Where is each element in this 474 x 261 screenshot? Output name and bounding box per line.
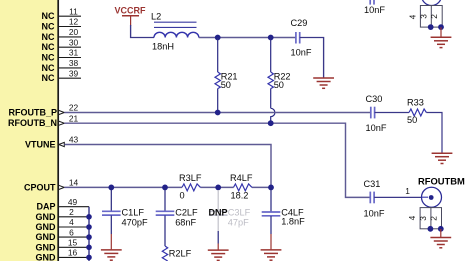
power VCCRF (115, 5, 147, 26)
svg-text:DNP: DNP (209, 207, 228, 217)
svg-text:VTUNE: VTUNE (25, 140, 56, 150)
svg-text:22: 22 (69, 103, 79, 113)
svg-text:14: 14 (69, 178, 79, 188)
ground at C3LF (208, 244, 229, 261)
capacitor C4LF (262, 187, 305, 234)
svg-text:38: 38 (69, 58, 79, 68)
svg-text:6: 6 (69, 227, 74, 237)
svg-text:R33: R33 (407, 98, 424, 108)
svg-text:R2LF: R2LF (169, 249, 192, 259)
svg-text:R4LF: R4LF (230, 173, 253, 183)
svg-text:10nF: 10nF (366, 123, 387, 133)
svg-text:0: 0 (180, 190, 185, 200)
svg-text:12: 12 (69, 17, 79, 27)
resistor R22 (268, 38, 291, 109)
pin GND 16 (36, 248, 90, 261)
resistor R33 (407, 98, 426, 125)
svg-text:C3LF: C3LF (228, 207, 251, 217)
junction on GND bus pin 6 (86, 234, 92, 240)
capacitor C3LF (DNP) (209, 190, 251, 244)
GND bus wire (88, 207, 90, 261)
junction R21 bottom on RFOUTB_P (215, 110, 221, 116)
svg-text:C31: C31 (364, 179, 381, 189)
pin RFOUTB_N 21 (8, 113, 78, 128)
svg-text:20: 20 (69, 27, 79, 37)
svg-text:11: 11 (69, 6, 78, 16)
resistor R2LF (162, 246, 191, 261)
svg-text:L2: L2 (151, 12, 161, 22)
svg-text:NC: NC (42, 22, 55, 32)
ground at J2 (430, 238, 451, 248)
svg-text:NC: NC (42, 53, 55, 63)
wire C31 to connector pin 1 (374, 186, 422, 198)
junction node at R22 top (268, 35, 274, 41)
junction node at R21 top (215, 35, 221, 41)
junction connector J1 pin 2 (438, 24, 444, 30)
wire C29 to ground (300, 38, 324, 78)
svg-text:50: 50 (221, 80, 231, 90)
ground at C1LF (101, 234, 122, 260)
pin DAP 49 (36, 197, 89, 212)
connector RFOUTBP J1 (partial at top) (407, 0, 442, 27)
svg-text:NC: NC (42, 11, 55, 21)
svg-text:4: 4 (407, 215, 417, 220)
ground at C4LF (261, 234, 282, 260)
svg-text:18nH: 18nH (152, 41, 174, 51)
svg-text:R3LF: R3LF (179, 173, 202, 183)
svg-text:68nF: 68nF (175, 218, 196, 228)
pin GND 6 (36, 227, 90, 242)
svg-text:50: 50 (407, 115, 417, 125)
svg-text:GND: GND (36, 212, 57, 222)
svg-text:3: 3 (418, 14, 428, 19)
ground at J1 (431, 37, 452, 47)
IC block U1 body (0, 0, 58, 261)
junction on GND bus pin 16 (86, 255, 92, 261)
pin VTUNE 43 (25, 135, 79, 150)
svg-text:VCCRF: VCCRF (115, 5, 147, 15)
ground at R33 (432, 153, 453, 163)
svg-text:43: 43 (69, 135, 79, 145)
svg-text:C1LF: C1LF (122, 207, 145, 217)
wire RFOUTB_P net (64, 112, 370, 114)
svg-text:GND: GND (36, 222, 57, 232)
wire RFOUTB_N net (64, 123, 370, 197)
svg-text:47pF: 47pF (228, 218, 249, 228)
pin GND 4 (36, 217, 90, 232)
junction connector J2 pin 2 (438, 226, 444, 232)
wire hop R22 over RFOUTB_P (271, 108, 275, 123)
wire CPOUT net (64, 186, 271, 188)
svg-text:GND: GND (36, 242, 57, 252)
svg-text:21: 21 (69, 113, 79, 123)
resistor R3LF (179, 173, 202, 200)
wire C30 to R33 (375, 112, 409, 114)
pin NC 38 (42, 58, 82, 73)
pin GND 15 (36, 238, 90, 253)
capacitor C30 (366, 94, 387, 133)
junction C3LF top (215, 185, 221, 191)
pin NC 31 (42, 48, 82, 63)
svg-text:4: 4 (69, 217, 74, 227)
svg-text:18.2: 18.2 (231, 190, 249, 200)
pin GND 2 (36, 207, 90, 222)
svg-text:10nF: 10nF (364, 5, 385, 15)
svg-text:1.8nF: 1.8nF (281, 217, 305, 227)
capacitor C31 (364, 179, 385, 219)
junction on GND bus pin 2 (86, 214, 92, 220)
svg-text:DAP: DAP (36, 202, 55, 212)
pin CPOUT 14 (24, 178, 78, 193)
svg-text:16: 16 (68, 248, 78, 258)
pin NC 12 (42, 17, 82, 32)
capacitor C29 (291, 18, 312, 58)
svg-text:GND: GND (36, 252, 57, 261)
svg-text:49: 49 (68, 197, 78, 207)
svg-text:RFOUTB_N: RFOUTB_N (8, 118, 57, 128)
capacitor C28 (partial at top) (364, 0, 385, 15)
svg-text:2: 2 (428, 216, 438, 221)
pin NC 39 (42, 68, 82, 83)
junction C1LF top (108, 185, 114, 191)
svg-text:2: 2 (429, 14, 439, 19)
ground at C29 (313, 78, 334, 88)
wire J2 to ground (440, 229, 442, 237)
wire R33 to ground (426, 113, 442, 153)
junction C2LF top (162, 185, 168, 191)
svg-text:31: 31 (69, 48, 79, 58)
svg-text:3: 3 (418, 216, 428, 221)
pin NC 30 (42, 37, 82, 52)
wire J1 to ground (440, 27, 442, 37)
pin NC 20 (42, 27, 82, 42)
svg-text:C2LF: C2LF (175, 207, 198, 217)
junction connector J1 pin 3 (428, 24, 434, 30)
svg-text:NC: NC (42, 42, 55, 52)
inductor L2 (151, 12, 199, 52)
capacitor C2LF (156, 187, 198, 246)
svg-text:NC: NC (42, 73, 55, 83)
svg-text:10nF: 10nF (364, 209, 385, 219)
svg-text:RFOUTB_P: RFOUTB_P (8, 108, 57, 118)
resistor R21 (215, 38, 238, 113)
pin NC 11 (42, 6, 82, 21)
svg-text:C29: C29 (291, 18, 308, 28)
svg-text:1: 1 (405, 186, 410, 196)
svg-text:4: 4 (407, 14, 417, 19)
junction R22 bottom on RFOUTB_N (268, 120, 274, 126)
resistor R4LF (230, 173, 253, 200)
svg-text:2: 2 (69, 207, 74, 217)
pin RFOUTB_P 22 (8, 103, 78, 118)
svg-text:470pF: 470pF (122, 218, 148, 228)
svg-text:CPOUT: CPOUT (24, 182, 56, 192)
svg-text:30: 30 (69, 37, 79, 47)
svg-text:NC: NC (42, 32, 55, 42)
svg-text:50: 50 (274, 80, 284, 90)
junction connector J2 pin 3 (428, 226, 434, 232)
svg-text:39: 39 (69, 68, 79, 78)
junction C4LF / VTUNE node (268, 185, 274, 191)
junction on GND bus pin 15 (86, 245, 92, 251)
svg-text:10nF: 10nF (291, 48, 312, 58)
wire VCCRF to L2 (131, 25, 154, 38)
wire VTUNE net (64, 145, 271, 188)
svg-text:GND: GND (36, 232, 57, 242)
svg-text:15: 15 (68, 238, 78, 248)
svg-text:NC: NC (42, 63, 55, 73)
wire L2 to C29 (199, 37, 296, 39)
svg-text:RFOUTBM: RFOUTBM (418, 175, 465, 186)
svg-text:C30: C30 (366, 94, 383, 104)
connector RFOUTBM J2 (407, 175, 465, 229)
junction on GND bus pin 4 (86, 224, 92, 230)
capacitor C1LF (102, 187, 148, 234)
